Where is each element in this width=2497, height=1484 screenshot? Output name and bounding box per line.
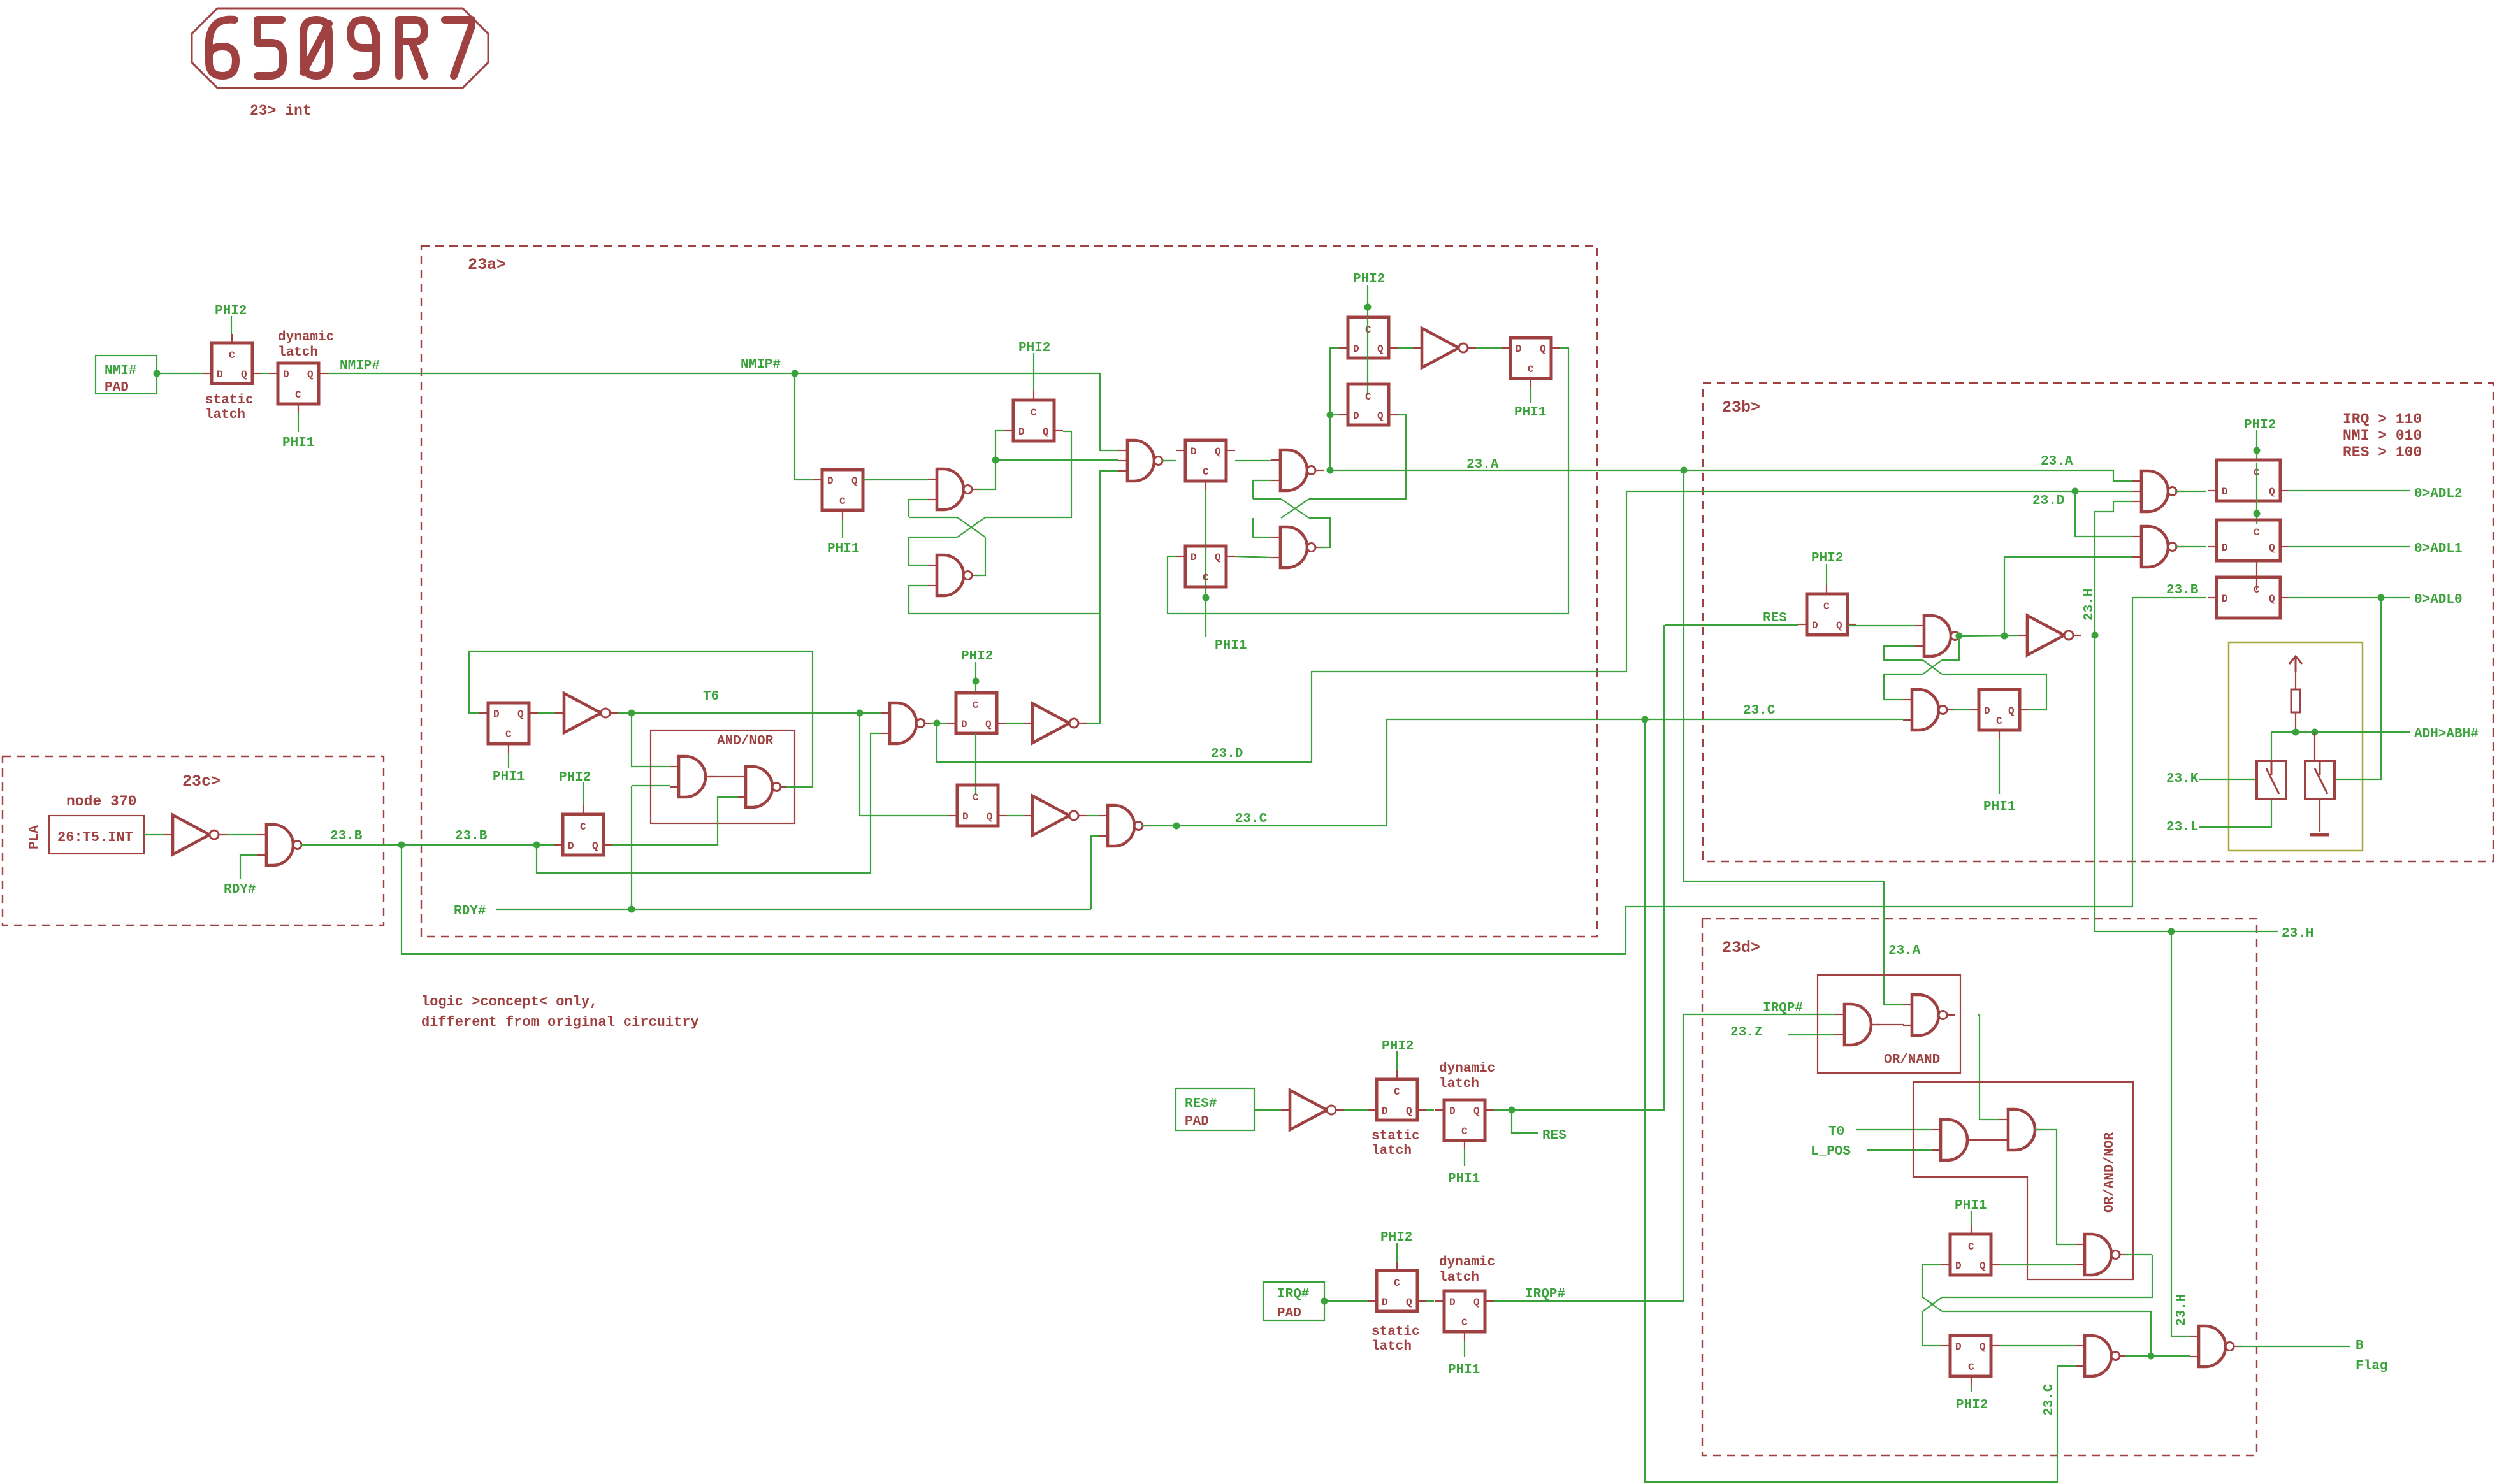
svg-text:PHI1: PHI1: [1955, 1199, 1987, 1213]
svg-text:PAD: PAD: [1277, 1306, 1301, 1321]
svg-text:PHI1: PHI1: [1215, 638, 1247, 653]
latch L5 (PHI1): [1176, 546, 1235, 587]
svg-text:D: D: [493, 709, 500, 720]
wire IRQ static to dynamic: [1426, 1300, 1434, 1302]
wire V1 out node: [2125, 1254, 2152, 1255]
inverter IV T6: [555, 693, 618, 733]
wire IRQ dynamic clock to PHI1: [1464, 1341, 1465, 1357]
svg-text:D: D: [1191, 552, 1197, 563]
box AND/NOR (23a): [651, 730, 795, 823]
svg-text:PHI2: PHI2: [1382, 1039, 1414, 1054]
svg-text:D: D: [1449, 1106, 1456, 1117]
label 23.C vertical (23d): [2042, 1383, 2057, 1416]
junction S1 out node: [992, 457, 999, 464]
label AND/NOR: [717, 734, 774, 749]
svg-text:C: C: [1394, 1086, 1400, 1098]
label PHI2 (latch P2): [1018, 341, 1050, 356]
label dynamic latch (NMI): [278, 330, 334, 360]
latch L1 (PHI2): [1339, 317, 1398, 358]
wire X pair1 left drop to S2 in1: [909, 537, 928, 565]
junction 23.C out: [1173, 823, 1180, 830]
label dynamic latch (RES): [1439, 1062, 1495, 1091]
label 23.H vertical (23d): [2175, 1294, 2189, 1326]
wire or to nand (red): [1874, 1024, 1904, 1025]
wire L5 Q to NAND P2: [1235, 556, 1271, 558]
svg-text:Q: Q: [1406, 1297, 1412, 1308]
svg-text:0>ADL2: 0>ADL2: [2414, 487, 2463, 501]
svg-text:C: C: [580, 821, 586, 833]
wire 23.H to label: [2095, 931, 2278, 932]
inverter IV 23.H: [2018, 616, 2081, 655]
label 23c): [182, 772, 221, 791]
svg-text:latch: latch: [1372, 1144, 1412, 1158]
label PHI1 (L3): [1514, 405, 1546, 420]
note line2: [421, 1014, 699, 1030]
svg-text:OR/NAND: OR/NAND: [1884, 1053, 1940, 1067]
resistor pullup: [2291, 689, 2300, 712]
junction ADL0 out: [2378, 594, 2385, 602]
switch SW1: [2257, 761, 2286, 799]
svg-text:23.A: 23.A: [1888, 944, 1921, 958]
svg-text:D: D: [1449, 1297, 1456, 1308]
wire X pair1 diag a: [957, 517, 985, 537]
label NMIP# (at pad): [340, 359, 380, 373]
label L_POS: [1811, 1144, 1851, 1159]
svg-text:C: C: [1461, 1126, 1468, 1137]
wire RES from riser to latch D: [1665, 624, 1798, 626]
junction PHI2 L1: [1364, 304, 1372, 311]
svg-text:latch: latch: [205, 408, 245, 422]
wire ADL0 out: [2289, 597, 2410, 598]
wire OR/NAND out to AND2: [1978, 1015, 1999, 1120]
svg-text:C: C: [229, 350, 235, 361]
wire invP output: [1083, 614, 1100, 723]
wire net 23.D: [937, 491, 2132, 762]
wire AND2 out to NOR V1: [2035, 1130, 2076, 1244]
title border octagon: [192, 8, 488, 88]
wire 23.A branch down to 23d: [1684, 470, 1903, 1005]
wire NMIP# run: [328, 373, 1118, 450]
svg-text:D: D: [1984, 705, 1990, 717]
nand N23C (makes 23.C): [1099, 805, 1151, 846]
junction RDY# runner tap: [628, 906, 635, 913]
svg-text:IRQ > 110: IRQ > 110: [2343, 411, 2422, 428]
pad RES#: [1176, 1088, 1254, 1130]
junction 23.B main: [398, 842, 405, 849]
svg-text:23.B: 23.B: [330, 829, 363, 844]
svg-text:26:T5.INT: 26:T5.INT: [57, 830, 133, 846]
svg-text:D: D: [1516, 343, 1522, 355]
label 23.B (23a): [455, 829, 488, 844]
svg-text:T0: T0: [1828, 1125, 1844, 1139]
nor V1 (23d SR upper): [2076, 1234, 2128, 1275]
latch RES (PHI2): [1798, 585, 1856, 635]
label dynamic latch (IRQ): [1439, 1255, 1495, 1285]
latch ADL2: [2208, 460, 2289, 501]
label PHI1 (RES latch B): [1448, 1172, 1480, 1186]
svg-text:PHI1: PHI1: [493, 770, 525, 784]
wire NMIP# branch down to latch TL: [795, 373, 813, 480]
svg-text:B: B: [2356, 1339, 2364, 1353]
wire SW2 bottom to ground: [2319, 800, 2320, 832]
svg-text:PHI2: PHI2: [1811, 551, 1843, 566]
svg-text:Q: Q: [1377, 343, 1384, 355]
wire PHI2 to NMI static latch clock: [231, 316, 232, 334]
svg-text:Q: Q: [592, 840, 598, 852]
wire node to NAND S3 in2: [995, 459, 1118, 461]
svg-text:23.C: 23.C: [1743, 703, 1776, 718]
svg-text:Q: Q: [1406, 1106, 1412, 1117]
svg-text:C: C: [1203, 466, 1209, 478]
wire R1 out to inverter: [1959, 635, 2018, 636]
svg-text:23.D: 23.D: [1211, 747, 1243, 761]
junction 23.D branch: [2072, 488, 2079, 495]
svg-text:D: D: [2222, 486, 2228, 498]
svg-text:D: D: [1191, 446, 1197, 457]
box OR/NAND: [1818, 975, 1960, 1073]
svg-text:dynamic: dynamic: [1439, 1062, 1495, 1076]
svg-text:AND/NOR: AND/NOR: [717, 734, 774, 749]
latch U1 (PHI1): [1941, 1225, 2000, 1275]
svg-text:Q: Q: [241, 369, 247, 380]
label 23.K: [2166, 772, 2199, 786]
wire pla box to inverter 23c: [144, 834, 164, 835]
wire V1 out to X rail: [1942, 1255, 2152, 1297]
svg-text:D: D: [1353, 410, 1359, 422]
label PHI2 (latch L1): [1353, 272, 1385, 287]
wire X 23d diag a: [1923, 1297, 1942, 1311]
wire T0 to AND1: [1856, 1129, 1932, 1130]
nand S3 (3-input): [1118, 440, 1171, 481]
wire node to switch2 top: [2314, 732, 2315, 760]
svg-text:D: D: [1018, 426, 1025, 438]
latch static (RES): [1368, 1070, 1426, 1120]
section box 23b: [1703, 383, 2493, 861]
and2 (OR/AND/NOR): [1999, 1109, 2044, 1150]
svg-text:RES#: RES#: [1185, 1097, 1217, 1111]
wire NAND B out to ADL1: [2175, 546, 2206, 547]
svg-text:C: C: [1031, 407, 1037, 419]
wire X 23b diag a: [1923, 660, 1942, 674]
svg-text:Q: Q: [985, 719, 992, 730]
latch L2 (PHI2): [1339, 384, 1398, 425]
wire 23.B sub branch: [537, 845, 871, 873]
wire R1 out node: [1959, 635, 1965, 637]
label PHI2 (RES latch A): [1382, 1039, 1414, 1054]
junction 23.H node: [2092, 632, 2099, 639]
latch static (IRQ): [1368, 1262, 1426, 1311]
wire ADL2 out: [2289, 490, 2410, 491]
svg-text:D: D: [1955, 1341, 1962, 1353]
wire PHI2 to IRQ latch clock: [1396, 1243, 1398, 1262]
svg-text:C: C: [839, 496, 846, 507]
inverter IV2: [1024, 796, 1087, 835]
svg-text:C: C: [2254, 527, 2260, 538]
wire NAND A out to ADL2: [2175, 491, 2206, 492]
svg-text:23.D: 23.D: [2032, 494, 2064, 508]
latch dynamic (NMI): [269, 363, 328, 413]
wire X 23d to U1 D: [1922, 1265, 1941, 1297]
svg-text:Q: Q: [1540, 343, 1546, 355]
wire ST6 in1 from T6: [860, 712, 881, 714]
svg-text:Q: Q: [1836, 620, 1842, 631]
label OR/AND/NOR: [2103, 1132, 2117, 1213]
latch LP (PHI2): [947, 693, 1006, 733]
svg-text:23c>: 23c>: [182, 772, 221, 791]
wire node to latch P2 D: [995, 431, 1004, 460]
wire NMI# pad to static latch: [157, 373, 203, 374]
svg-text:Q: Q: [1980, 1341, 1986, 1353]
and gate (AND/NOR): [670, 756, 714, 797]
wire S2 out up to X: [975, 537, 985, 575]
svg-text:Q: Q: [2269, 486, 2275, 498]
label PHI2 (latch LP): [961, 649, 993, 664]
svg-text:PHI2: PHI2: [1018, 341, 1050, 356]
svg-text:L_POS: L_POS: [1811, 1144, 1851, 1159]
svg-text:Q: Q: [2008, 705, 2015, 717]
label 23.D (23a): [1211, 747, 1243, 761]
junction R1 out b: [2001, 633, 2008, 640]
wire 23cL Q riser to NOR in2: [612, 797, 738, 845]
wire R2L clock to PHI1: [1999, 739, 2000, 794]
wire PHI2 to L1 clock: [1367, 285, 1368, 317]
wire ADL1 out: [2289, 546, 2410, 547]
wire RES dynamic clock to PHI1: [1464, 1149, 1465, 1166]
label PHI1 (latch TL): [827, 542, 859, 556]
wire rail into switch1 top: [2271, 732, 2272, 760]
svg-text:0>ADL0: 0>ADL0: [2414, 593, 2463, 607]
svg-text:static: static: [1372, 1325, 1420, 1339]
svg-text:23b>: 23b>: [1722, 398, 1760, 417]
junction NMIP# branch: [792, 370, 799, 377]
label ADH>ABH#: [2414, 727, 2479, 742]
label node 370: [66, 793, 136, 810]
wire RDY# riser to N23C in2: [1091, 836, 1099, 909]
label 23.A (23d): [1888, 944, 1921, 958]
wire resistor to node: [2295, 712, 2296, 732]
note IRQ/NMI/RES vectors: [2343, 411, 2422, 461]
label RDY# (runner): [454, 904, 486, 919]
junction 23.C riser: [1642, 716, 1649, 723]
wire IV1 out to latch L3: [1476, 347, 1502, 349]
svg-text:static: static: [1372, 1129, 1420, 1144]
wire L1 Q to inverter IV1: [1398, 347, 1413, 349]
power arrow VCC: [2289, 656, 2302, 672]
junction T6 to LTQ tap: [857, 710, 864, 717]
svg-text:OR/AND/NOR: OR/AND/NOR: [2103, 1132, 2117, 1213]
junction pullup node: [2292, 729, 2299, 736]
latch R2L (PHI1): [1970, 689, 2029, 739]
nand A (0>ADL2): [2132, 471, 2185, 512]
inverter IV1: [1413, 328, 1476, 368]
svg-text:RES > 100: RES > 100: [2343, 444, 2422, 461]
svg-text:PHI1: PHI1: [827, 542, 859, 556]
wire LP Q to inverter IVP: [1006, 723, 1024, 724]
nor gate (AND/NOR): [737, 767, 789, 807]
label NMIP# (23a): [741, 357, 781, 372]
svg-text:PHI2: PHI2: [559, 770, 591, 785]
svg-text:RES: RES: [1542, 1128, 1567, 1143]
svg-text:23.B: 23.B: [2166, 583, 2199, 598]
latch ADL0: [2208, 577, 2289, 618]
label PHI1 (latch U1): [1955, 1199, 1987, 1213]
label 23.B (at ADL0): [2166, 583, 2199, 598]
nand P1 (SR pair2 upper): [1271, 450, 1324, 491]
wire PHI2 to latch P2 clock: [1033, 353, 1034, 391]
nand S1 (SR pair1 upper): [928, 469, 980, 510]
wire X pair2 top right to latch L2 Q: [1309, 415, 1406, 499]
svg-text:C: C: [1394, 1278, 1400, 1289]
wire T6 loop left drop: [469, 651, 479, 713]
wire X 23b diag b: [1923, 660, 1942, 674]
label static latch (IRQ): [1372, 1325, 1420, 1354]
label PLA: [27, 825, 42, 849]
svg-text:PAD: PAD: [105, 380, 129, 395]
svg-text:23.A: 23.A: [1466, 457, 1499, 472]
wire V2 out node: [2125, 1355, 2151, 1357]
label OR/NAND: [1884, 1053, 1940, 1067]
nand ST6: [881, 703, 933, 744]
wire RDY# runner: [496, 909, 1091, 910]
wire X pair2 rail bottom-left: [1253, 518, 1271, 537]
wire R1 feedback to X: [1942, 636, 1959, 660]
latch LTQ (PHI2): [948, 785, 1007, 826]
svg-text:D: D: [962, 811, 969, 823]
svg-text:dynamic: dynamic: [1439, 1255, 1495, 1270]
inverter IVP: [1024, 703, 1087, 743]
wire 23.B riser to ST6 in2: [871, 733, 881, 873]
svg-text:D: D: [283, 369, 289, 380]
svg-text:C: C: [2254, 584, 2260, 596]
wire P2 out up to X: [1309, 518, 1330, 547]
svg-text:static: static: [205, 393, 254, 408]
nand B (0>ADL1): [2132, 526, 2185, 567]
svg-text:C: C: [1968, 1362, 1974, 1373]
wire NOR out to T6 loop riser: [786, 651, 813, 787]
wire NMI static latch to dynamic latch: [261, 373, 269, 374]
junction PHI2 ADL2: [2254, 447, 2261, 454]
label RDY# (23c): [224, 882, 256, 897]
wire T6 tap to AND in1: [632, 713, 670, 767]
wire L3 clock to PHI1: [1530, 387, 1531, 403]
wire IV23c out to NAND: [227, 834, 257, 835]
svg-text:Q: Q: [851, 475, 858, 487]
wire S3 out to latch L4: [1162, 460, 1176, 461]
svg-text:Q: Q: [307, 369, 314, 380]
wire V2 riser to X: [2150, 1311, 2152, 1356]
latch static (NMI): [203, 334, 261, 384]
wire T6 latch clock to PHI1: [508, 753, 509, 768]
wire V2 out to B gate: [2151, 1355, 2190, 1357]
wire vcc to resistor: [2295, 672, 2296, 689]
junction 23.H to 23d: [2168, 928, 2175, 935]
wire R2 out to latch R2L: [1953, 709, 1970, 710]
wire S1 out to node: [977, 460, 995, 489]
svg-text:23.H: 23.H: [2082, 589, 2097, 621]
svg-text:different from original circui: different from original circuitry: [421, 1014, 699, 1030]
latch P2 (PHI2): [1004, 391, 1063, 441]
wire TL clock to PHI1: [842, 519, 843, 538]
wire PHI2 down to ADL2: [2256, 430, 2257, 460]
wire net IRQP#: [1494, 1014, 1836, 1301]
svg-text:PHI2: PHI2: [2244, 418, 2276, 433]
wire X 23d to U2 D: [1922, 1311, 1941, 1346]
wire 23.D branch to NAND B in1: [2075, 491, 2132, 537]
wire PHI1 to U1 clock: [1971, 1211, 1972, 1225]
wire L4 Q to NAND P1: [1235, 460, 1271, 461]
wire IV2 out to NAND N23C: [1087, 815, 1099, 816]
section box 23d: [1702, 919, 2257, 1455]
svg-text:23.A: 23.A: [2041, 454, 2073, 469]
wire RDY# to nand 23c in2: [240, 855, 257, 879]
svg-text:23a>: 23a>: [468, 256, 506, 274]
label PHI2 (RES latch): [1811, 551, 1843, 566]
wire AND in2 stub: [632, 785, 670, 786]
svg-text:C: C: [973, 792, 979, 803]
svg-text:C: C: [1365, 391, 1372, 403]
title text 6509R7: [209, 20, 472, 76]
label 23.H vertical: [2082, 589, 2097, 621]
svg-text:C: C: [295, 389, 301, 401]
wire 23.H riser into 23d: [2171, 932, 2190, 1336]
pad NMI#: [96, 356, 157, 395]
latch U2 (PHI2): [1941, 1336, 2000, 1385]
svg-text:Q: Q: [1215, 552, 1221, 563]
svg-text:RDY#: RDY#: [454, 904, 486, 919]
junction NMI pad output: [154, 370, 161, 377]
label 23b): [1722, 398, 1760, 417]
junction RES label tap: [1509, 1107, 1516, 1114]
label PHI2 (IRQ latch A): [1380, 1230, 1412, 1245]
label IRQP# (23d): [1763, 1001, 1803, 1016]
label 0>ADL2: [2414, 487, 2463, 501]
wire L3 Q runner: [1168, 348, 1568, 614]
label 23.Z: [1730, 1025, 1762, 1040]
wire PHI2 to RES latch clock: [1826, 564, 1827, 585]
section box 23a: [421, 246, 1597, 937]
wire T6 tap to latch LTQ D: [860, 713, 948, 816]
wire 23.B long branch: [402, 598, 2206, 954]
wire RES static to dynamic: [1426, 1109, 1434, 1111]
wire IRQ# pad to static latch: [1324, 1300, 1368, 1302]
svg-text:D: D: [1382, 1106, 1388, 1117]
nand 23c: [257, 825, 310, 865]
svg-text:D: D: [1382, 1297, 1388, 1308]
junction 23.A output node: [1327, 467, 1334, 474]
junction ST6 out: [934, 720, 941, 727]
box PLA node 26:T5.INT: [49, 816, 144, 854]
label PHI1 (T6 latch): [493, 770, 525, 784]
sheet label 23) int: [250, 103, 312, 119]
label 23.D (23b): [2032, 494, 2064, 508]
svg-text:C: C: [1996, 716, 2002, 727]
svg-text:C: C: [1461, 1317, 1468, 1329]
svg-text:Q: Q: [1473, 1297, 1480, 1308]
label RES (origin): [1542, 1128, 1567, 1143]
svg-text:D: D: [827, 475, 834, 487]
wire L5 D riser from L3 Q runner: [1168, 556, 1176, 614]
wire X pair2 diag b: [1281, 499, 1309, 518]
latch 23cL (PHI2): [554, 805, 612, 855]
svg-text:D: D: [1955, 1260, 1962, 1272]
wire R2L Q feedback: [1942, 674, 2046, 710]
wire net 23.B: [301, 844, 554, 846]
wire X pair1 right top to latch P2 Q: [985, 431, 1071, 517]
wire 23.H riser: [2094, 635, 2095, 932]
wire U2 Q to V2 in1: [2000, 1345, 2076, 1346]
nand B flag gate: [2190, 1326, 2242, 1367]
svg-text:Q: Q: [1473, 1106, 1480, 1117]
